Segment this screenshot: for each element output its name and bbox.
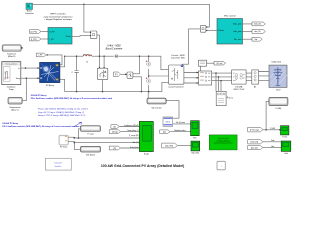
svg-text:Pmax = 100.7 kW (@ 1000 W/m2,: Pmax = 100.7 kW (@ 1000 W/m2, 25 deg. C)… [38,109,89,111]
svg-text:MPPT Controller: MPPT Controller [50,13,65,16]
svg-text:[B_inv]: [B_inv] [217,63,223,65]
svg-text:(deg. C): (deg. C) [11,109,19,111]
svg-text:PV meas: PV meas [60,147,67,149]
svg-text:Varray = 273.5 V, Iarray = 368: Varray = 273.5 V, Iarray = 368.3 A (@ 10… [38,114,86,117]
svg-text:Discrete: Discrete [55,162,63,165]
svg-text:Iabc_prim: Iabc_prim [234,31,242,33]
svg-text:Ramp-up/down: Ramp-up/down [5,64,17,66]
svg-text:25 kV: 25 kV [276,90,281,92]
svg-text:260V / 25 kV: 260V / 25 kV [233,89,245,91]
svg-text:100-kW PV Array: 100-kW PV Array [31,94,48,97]
svg-text:Pulse: Pulse [66,36,72,38]
svg-text:+ Integral Regulator' techniqu: + Integral Regulator' technique [44,18,73,21]
svg-text:P (kW): P (kW) [276,108,282,110]
svg-text:Grid: Grid [284,153,287,155]
svg-text:I_PV: I_PV [49,39,54,41]
svg-text:Vdc Inverter: Vdc Inverter [151,106,162,109]
svg-text:Vabc_prim: Vabc_prim [233,24,242,26]
svg-text:Converter VSC: Converter VSC [171,57,185,60]
svg-text:Vdc: Vdc [254,39,257,41]
svg-text:V_PV: V_PV [49,31,55,33]
svg-text:Vdc (V) mean: Vdc (V) mean [176,122,185,124]
svg-text:P_avg: P_avg [88,134,94,136]
svg-text:P_array (W): P_array (W) [129,135,139,137]
svg-text:Utility Grid: Utility Grid [272,61,281,64]
svg-text:2-Level - 500V: 2-Level - 500V [170,55,185,57]
svg-text:L1: L1 [86,61,88,63]
svg-text:330 x SunPower modules (SPR-30: 330 x SunPower modules (SPR-305E-WHT); 6… [2,125,84,128]
svg-text:Boost Converter: Boost Converter [106,48,123,51]
svg-text:PV Array: PV Array [46,84,54,87]
svg-text:Vab_VSC: Vab_VSC [191,152,199,154]
svg-text:Vdc Boost: Vdc Boost [86,153,96,156]
svg-text:Irradiance (W/m2): Irradiance (W/m2) [124,125,139,127]
svg-text:0.4kV - 500V: 0.4kV - 500V [107,44,121,47]
svg-text:Temp: Temp [16,78,20,80]
svg-text:100-kW Grid-Connected PV Array: 100-kW Grid-Connected PV Array (Detailed… [101,164,185,168]
svg-text:[Vab_VSC]: [Vab_VSC] [165,145,173,147]
svg-text:P (kW): P (kW) [270,128,275,130]
svg-text:Vdc_mes: Vdc_mes [234,39,242,41]
svg-text:Scope: Scope [144,154,149,156]
svg-text:Vabc: Vabc [271,140,275,142]
svg-text:[Vabc_B1]: [Vabc_B1] [251,142,259,144]
svg-text:Vabc_B1: Vabc_B1 [254,24,261,26]
svg-text:Iabc_B1: Iabc_B1 [254,31,260,33]
svg-text:VSC Control: VSC Control [224,14,236,17]
svg-text:(W/m^2): (W/m^2) [8,55,16,58]
svg-text:Duty Cycle: Duty Cycle [130,146,139,149]
svg-text:Vdc (V): Vdc (V) [133,142,139,144]
svg-text:500.6: 500.6 [165,122,170,124]
svg-text:Vmp = 54.7 V, Imp = 5.58 A (@: Vmp = 54.7 V, Imp = 5.58 A (@ 1000 W/m2,… [38,111,84,114]
svg-text:[Temp]: [Temp] [112,132,118,134]
svg-text:[I_PV]: [I_PV] [31,39,37,41]
svg-text:B1: B1 [254,87,256,89]
svg-text:5e-06 s.: 5e-06 s. [55,166,63,168]
svg-text:[Iabc_B1]: [Iabc_B1] [251,147,258,149]
svg-text:B_inv: B_inv [229,97,234,99]
svg-text:Iabc: Iabc [271,146,274,148]
svg-text:Converter: Converter [25,12,34,15]
svg-text:100-kW PV Array: 100-kW PV Array [2,122,19,125]
svg-text:P_B1: P_B1 [282,136,286,138]
svg-text:2-Level Converter: 2-Level Converter [168,85,183,88]
svg-text:[V_PV]: [V_PV] [31,31,37,33]
svg-text:330 x SunPower modules (SPR-30: 330 x SunPower modules (SPR-305E-WHT); 6… [31,97,113,100]
svg-text:Temp (deg. C): Temp (deg. C) [127,130,139,132]
svg-text:[P_B1_avg]: [P_B1_avg] [250,130,259,132]
svg-text:using 'Incremental Conductance: using 'Incremental Conductance [43,15,73,18]
svg-text:Pulses: Pulses [218,30,224,32]
